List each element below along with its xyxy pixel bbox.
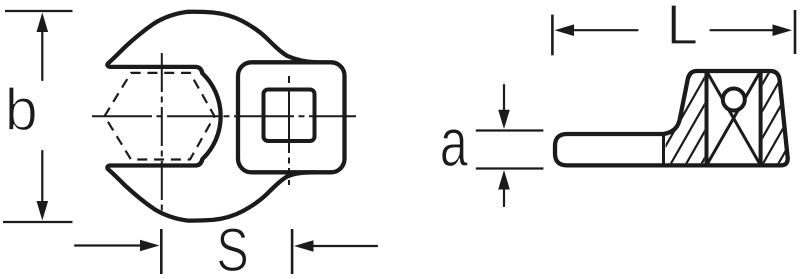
dimension L: left arrow shaft [574,29,638,31]
dimension b: top extension line [5,10,73,12]
dimension S: left arrowhead [140,240,160,252]
svg-text:L: L [666,0,698,57]
side view: drive hole left edge [705,71,709,165]
dimension b: upper arrowhead [37,13,49,33]
dimension L: right arrow shaft [711,29,772,31]
dimension a: upper arrow shaft [503,85,505,112]
dimension L: right tick [794,10,797,54]
dimension b: lower arrowhead [37,201,49,221]
front view: crow-foot head outline [107,12,317,221]
side view: left hatching [618,58,800,176]
dimension S: right tick [291,229,294,274]
dimension a: bottom extension line [476,167,544,169]
dimension S: left tick [160,229,163,274]
dimension L: right arrowhead [773,24,793,36]
front view: square drive hole [264,90,315,142]
dimension a: top extension line [476,129,544,131]
side view: cross diagonal 2 [707,71,761,165]
side view: cross diagonal 1 [707,71,761,165]
svg-text:b: b [5,77,38,143]
dimension L: left tick [551,15,554,56]
dimension b: upper arrow shaft [41,24,43,80]
side view: handle + head outline [555,71,788,165]
front view: dashed hexagon (across flats) [105,73,215,160]
dimension L: left arrowhead [555,24,575,36]
dimension a: lower arrowhead [498,170,510,190]
side view: right hatching [618,58,800,176]
front view: drive square vertical centerline [288,76,290,185]
side view: drive hole right edge [759,71,763,165]
dimension b: lower arrow shaft [41,151,43,205]
svg-text:S: S [216,216,248,279]
dimension b: bottom extension line [3,221,73,223]
dimension S: right arrow shaft [313,245,377,247]
side view: section boundary line handle/head [662,134,665,165]
dimension a: upper arrowhead [498,110,510,129]
dimension S: left arrow shaft [75,244,140,246]
svg-text:a: a [440,103,468,181]
dimension S: right arrowhead [294,240,314,252]
side view: ball hole circle [723,89,745,111]
front view: horizontal centerline [92,115,356,117]
dimension a: lower arrow shaft [503,188,505,206]
front view: drive boss rounded square [238,62,345,172]
front view: hexagon vertical centerline [161,53,163,211]
